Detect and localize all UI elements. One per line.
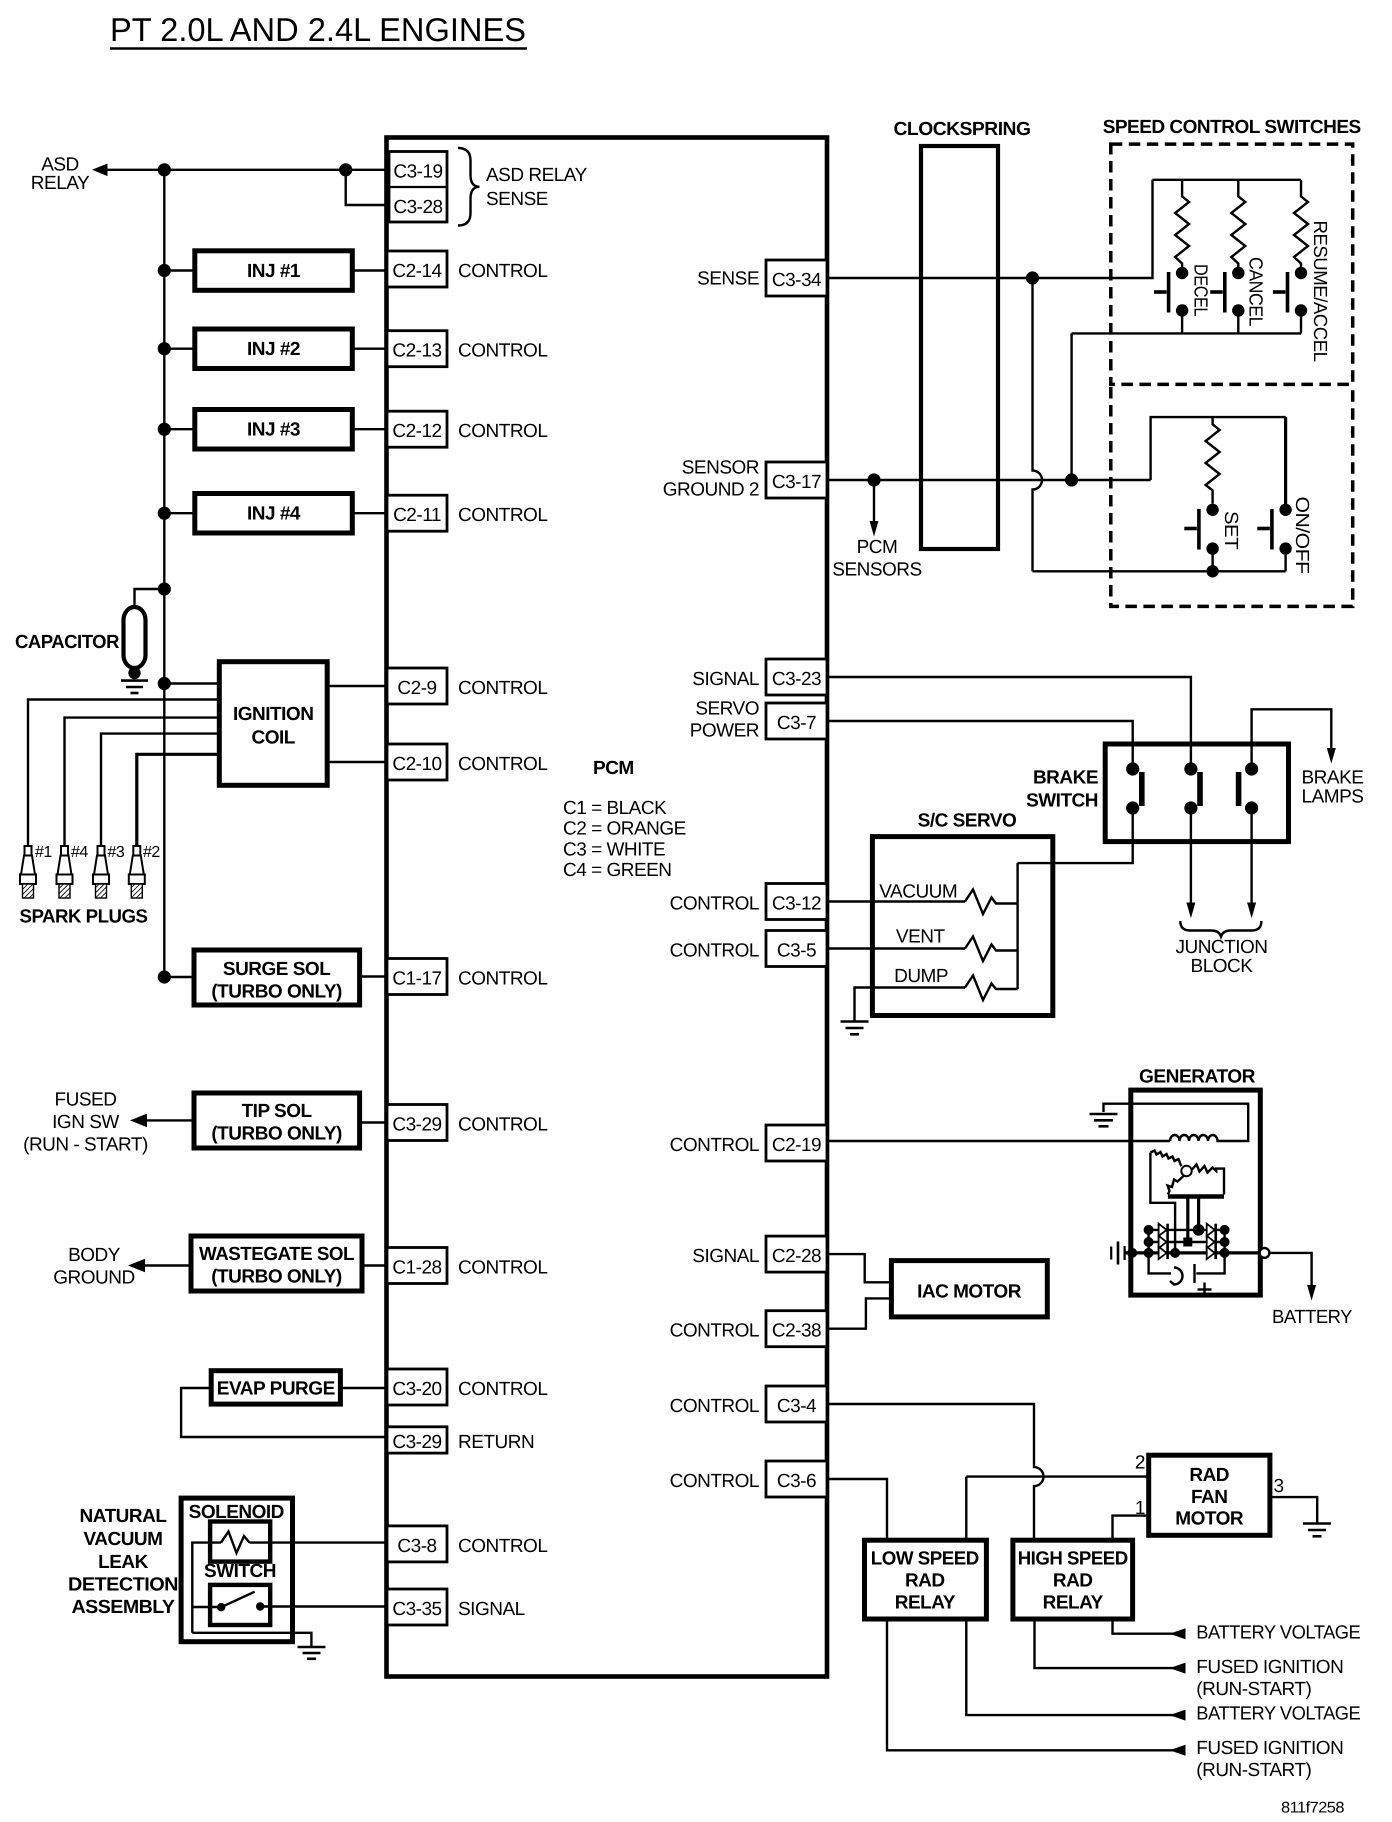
svg-text:LEAK: LEAK bbox=[98, 1552, 149, 1573]
svg-text:CONTROL: CONTROL bbox=[458, 754, 547, 775]
svg-text:#4: #4 bbox=[71, 844, 88, 861]
svg-text:MOTOR: MOTOR bbox=[1175, 1509, 1244, 1530]
svg-text:SPARK PLUGS: SPARK PLUGS bbox=[20, 907, 148, 928]
svg-text:FUSED IGNITION: FUSED IGNITION bbox=[1196, 1738, 1343, 1759]
svg-text:RAD: RAD bbox=[905, 1571, 945, 1592]
svg-text:RESUME/ACCEL: RESUME/ACCEL bbox=[1309, 221, 1330, 362]
generator output terminal bbox=[1260, 1248, 1270, 1258]
wire ignition coil to C2-9 bbox=[327, 685, 387, 687]
wire C2-38 to IAC motor bbox=[827, 1298, 891, 1328]
junction dot bus INJ1 bbox=[158, 264, 171, 277]
svg-text:811f7258: 811f7258 bbox=[1281, 1800, 1344, 1817]
svg-text:C3 = WHITE: C3 = WHITE bbox=[563, 840, 665, 861]
svg-text:SENSOR: SENSOR bbox=[682, 457, 759, 478]
svg-text:ON/OFF: ON/OFF bbox=[1291, 497, 1312, 574]
svg-text:CONTROL: CONTROL bbox=[458, 1115, 547, 1136]
svg-text:SERVO: SERVO bbox=[695, 698, 759, 719]
generator box bbox=[1131, 1090, 1261, 1295]
rad fan motor box bbox=[1149, 1455, 1270, 1535]
PCM box bbox=[387, 138, 828, 1677]
pin box C2-28 bbox=[766, 1236, 827, 1272]
arrowhead brake lamps bbox=[1327, 748, 1336, 764]
svg-text:#2: #2 bbox=[143, 844, 160, 861]
svg-text:IGNITION: IGNITION bbox=[233, 704, 313, 725]
svg-text:COIL: COIL bbox=[252, 728, 296, 749]
wire low relay top leg bbox=[965, 1477, 967, 1541]
generator brush circle bbox=[1181, 1166, 1191, 1176]
wire rad fan pin 1 to high relay bbox=[1113, 1516, 1149, 1541]
generator diode D2 bbox=[1159, 1236, 1168, 1248]
pin box C3-8 bbox=[387, 1526, 447, 1562]
junction dot bus INJ4 bbox=[158, 507, 171, 520]
wire wastegate solenoid to body ground bbox=[144, 1264, 191, 1266]
arrowhead fused ignition 1 bbox=[1170, 1663, 1186, 1674]
svg-text:C3-17: C3-17 bbox=[772, 472, 821, 493]
junction dot generator case bbox=[1127, 1248, 1137, 1258]
wire tip solenoid to C3-29 bbox=[360, 1121, 387, 1123]
wire CANCEL bottom stub bbox=[1237, 311, 1239, 334]
wire INJ #3 to C2-12 bbox=[352, 428, 387, 430]
injector INJ #3 box bbox=[195, 410, 352, 450]
wire speed control lower bus bbox=[1072, 332, 1301, 334]
tip solenoid box bbox=[194, 1093, 360, 1148]
pin box C2-11 bbox=[387, 495, 447, 531]
wire evap purge to C3-20 bbox=[340, 1387, 387, 1389]
dump solenoid zigzag bbox=[965, 976, 1018, 1001]
svg-text:C3-29: C3-29 bbox=[392, 1115, 441, 1136]
svg-text:C2-38: C2-38 bbox=[772, 1321, 821, 1342]
pin box C3-29 bbox=[387, 1105, 447, 1141]
wire to C3-28 bbox=[346, 170, 389, 205]
wire high relay to battery voltage bbox=[1113, 1619, 1184, 1634]
wire C2-19 to generator field bbox=[827, 1140, 1170, 1142]
ground NVLD bbox=[298, 1647, 326, 1659]
wire high relay to fused ignition bbox=[1035, 1619, 1184, 1668]
wire low relay to battery voltage bbox=[966, 1619, 1183, 1715]
svg-text:PCM: PCM bbox=[593, 758, 634, 779]
svg-text:C1-17: C1-17 bbox=[392, 969, 441, 990]
svg-text:FUSED: FUSED bbox=[55, 1089, 117, 1110]
svg-text:PT 2.0L AND 2.4L ENGINES: PT 2.0L AND 2.4L ENGINES bbox=[110, 11, 526, 48]
pin box C2-38 bbox=[766, 1311, 827, 1347]
wire SET bottom stub bbox=[1211, 549, 1213, 572]
wire brake pole2 to junction block bbox=[1190, 808, 1192, 903]
svg-text:C2-11: C2-11 bbox=[393, 505, 441, 526]
svg-text:EVAP PURGE: EVAP PURGE bbox=[217, 1379, 335, 1400]
arrowhead junction block left bbox=[1186, 903, 1195, 919]
svg-text:CONTROL: CONTROL bbox=[670, 1135, 759, 1156]
svg-text:CONTROL: CONTROL bbox=[670, 941, 759, 962]
svg-text:WASTEGATE SOL: WASTEGATE SOL bbox=[199, 1244, 355, 1265]
wire ON/OFF bottom stub bbox=[1284, 549, 1286, 572]
junction dot bus capacitor bbox=[158, 582, 171, 595]
wire C3-4 to high speed relay with hop bbox=[827, 1404, 1044, 1540]
svg-text:SOLENOID: SOLENOID bbox=[189, 1502, 284, 1523]
wire INJ #2 to C2-13 bbox=[352, 348, 387, 350]
svg-text:C2 = ORANGE: C2 = ORANGE bbox=[563, 819, 686, 840]
pin box C3-4 bbox=[766, 1386, 827, 1422]
svg-text:JUNCTION: JUNCTION bbox=[1175, 937, 1267, 958]
wire coil to spark plug 4 bbox=[65, 718, 220, 846]
low speed rad relay box bbox=[865, 1540, 987, 1619]
generator rotor winding right bbox=[1192, 1165, 1224, 1195]
pin box C1-28 bbox=[387, 1248, 447, 1284]
ground rad fan bbox=[1303, 1524, 1331, 1537]
svg-text:C1 = BLACK: C1 = BLACK bbox=[563, 798, 667, 819]
generator diode D1 bbox=[1159, 1224, 1168, 1236]
S/C servo box bbox=[872, 837, 1052, 1016]
wire rad fan pin 2 feed bbox=[966, 1475, 1148, 1477]
svg-text:POWER: POWER bbox=[690, 721, 759, 742]
junction dots generator left bus bbox=[1144, 1225, 1154, 1235]
pin box C2-19 bbox=[766, 1125, 827, 1161]
generator rotor winding upper bbox=[1150, 1151, 1181, 1167]
svg-text:CANCEL: CANCEL bbox=[1245, 257, 1266, 326]
generator regulator leg to row1 bbox=[1197, 1197, 1200, 1230]
wire low relay to fused ignition bbox=[887, 1619, 1183, 1750]
svg-text:C3-8: C3-8 bbox=[397, 1536, 436, 1557]
svg-text:C3-19: C3-19 bbox=[393, 162, 442, 183]
spark plug 4 bbox=[57, 846, 73, 898]
svg-text:RAD: RAD bbox=[1189, 1465, 1229, 1486]
wire ASD relay feed bbox=[104, 169, 389, 171]
svg-text:RAD: RAD bbox=[1053, 1571, 1093, 1592]
generator regulator leg to row2 bbox=[1186, 1197, 1189, 1243]
generator right diode bus bbox=[1196, 1230, 1224, 1274]
svg-text:IAC MOTOR: IAC MOTOR bbox=[917, 1282, 1022, 1303]
svg-text:C2-10: C2-10 bbox=[392, 754, 441, 775]
evap purge solenoid box bbox=[211, 1371, 340, 1404]
wire bus to ignition coil B+ bbox=[164, 682, 219, 684]
wire generator to battery bbox=[1269, 1253, 1311, 1286]
svg-text:VENT: VENT bbox=[896, 926, 946, 947]
svg-text:CONTROL: CONTROL bbox=[458, 341, 547, 362]
svg-text:RETURN: RETURN bbox=[458, 1432, 534, 1453]
pin box C1-17 bbox=[387, 959, 447, 995]
spark plug 1 bbox=[20, 846, 36, 898]
svg-text:CONTROL: CONTROL bbox=[458, 678, 547, 699]
svg-text:SIGNAL: SIGNAL bbox=[692, 1246, 759, 1267]
svg-text:BATTERY VOLTAGE: BATTERY VOLTAGE bbox=[1196, 1623, 1360, 1644]
pin box C3-35 bbox=[387, 1589, 447, 1625]
svg-text:CONTROL: CONTROL bbox=[458, 505, 547, 526]
svg-text:INJ #2: INJ #2 bbox=[247, 339, 300, 360]
generator diode row 3 output bbox=[1125, 1251, 1260, 1254]
wire dump to ground bbox=[855, 988, 966, 1022]
NVLD switch box bbox=[210, 1585, 270, 1625]
switch CANCEL bbox=[1210, 267, 1244, 317]
svg-text:ASSEMBLY: ASSEMBLY bbox=[72, 1597, 176, 1618]
svg-text:C3-6: C3-6 bbox=[777, 1471, 816, 1492]
generator diode D5 bbox=[1207, 1236, 1216, 1248]
NVLD assembly outer box bbox=[181, 1498, 292, 1642]
generator diode row 1 bbox=[1149, 1229, 1225, 1231]
svg-text:SWITCH: SWITCH bbox=[1026, 791, 1098, 812]
wire C3-7 servo power to brake switch pole 1 bbox=[827, 721, 1133, 769]
svg-text:C2-12: C2-12 bbox=[392, 421, 441, 442]
brace ASD relay sense bbox=[458, 148, 480, 226]
generator rotation arrow bbox=[1170, 1268, 1183, 1285]
junction dot generator center row1 bbox=[1193, 1224, 1205, 1236]
svg-text:BATTERY VOLTAGE: BATTERY VOLTAGE bbox=[1196, 1704, 1360, 1725]
svg-text:#1: #1 bbox=[35, 844, 52, 861]
svg-text:(RUN - START): (RUN - START) bbox=[23, 1135, 148, 1156]
svg-text:CAPACITOR: CAPACITOR bbox=[15, 632, 120, 653]
junction dot bus INJ3 bbox=[158, 423, 171, 436]
wire bus to surge solenoid bbox=[164, 976, 194, 978]
wire servo internal bus bbox=[1016, 863, 1018, 989]
pin box C2-13 bbox=[387, 331, 447, 367]
capacitor ground stem bbox=[133, 668, 135, 678]
pin box C2-12 bbox=[387, 411, 447, 447]
svg-text:SET: SET bbox=[1220, 511, 1241, 550]
wire ignition coil to C2-10 bbox=[327, 761, 387, 763]
generator left diode bus bbox=[1147, 1230, 1149, 1253]
generator left loop bottom bbox=[1149, 1253, 1171, 1274]
svg-text:C3-29: C3-29 bbox=[392, 1432, 441, 1453]
wire set/onoff return with hop bbox=[1033, 278, 1043, 571]
generator diode D3 bbox=[1159, 1247, 1168, 1259]
junction dot bus INJ2 bbox=[158, 342, 171, 355]
speed control switches dashed box upper bbox=[1111, 144, 1353, 384]
svg-text:GENERATOR: GENERATOR bbox=[1139, 1067, 1256, 1088]
svg-text:TIP SOL: TIP SOL bbox=[242, 1101, 313, 1122]
svg-text:SENSE: SENSE bbox=[486, 189, 548, 210]
svg-text:CONTROL: CONTROL bbox=[458, 261, 547, 282]
svg-text:VACUUM: VACUUM bbox=[879, 882, 957, 903]
junction dot capacitor ground bbox=[128, 667, 140, 679]
svg-text:(RUN-START): (RUN-START) bbox=[1196, 1679, 1311, 1700]
svg-text:BRAKE: BRAKE bbox=[1033, 768, 1098, 789]
svg-text:ASD RELAY: ASD RELAY bbox=[486, 165, 588, 186]
wire rad fan pin 3 to ground bbox=[1270, 1497, 1317, 1523]
speed control switches dashed box lower bbox=[1111, 387, 1353, 606]
IAC motor box bbox=[891, 1261, 1047, 1317]
switch ON/OFF bbox=[1257, 504, 1292, 555]
svg-text:C1-28: C1-28 bbox=[392, 1258, 441, 1279]
wire coil to spark plug 2 bbox=[137, 754, 220, 846]
wire C3-17 sensor ground 2 bbox=[827, 479, 1151, 481]
injector INJ #4 box bbox=[195, 494, 352, 534]
ground servo dump bbox=[841, 1022, 869, 1035]
svg-text:CONTROL: CONTROL bbox=[458, 421, 547, 442]
wire RESUME bottom stub bbox=[1300, 311, 1302, 334]
svg-text:C2-19: C2-19 bbox=[772, 1135, 821, 1156]
wire tip solenoid to fused ign sw bbox=[146, 1119, 194, 1121]
svg-text:RELAY: RELAY bbox=[1043, 1593, 1104, 1614]
svg-text:PCM: PCM bbox=[857, 537, 898, 558]
generator battery plus tick bbox=[1193, 1264, 1195, 1283]
wire DECEL bottom stub bbox=[1181, 311, 1183, 334]
arrowhead battery bbox=[1307, 1285, 1316, 1301]
svg-text:C3-7: C3-7 bbox=[777, 713, 816, 734]
wire C3-34 sense bbox=[827, 180, 1153, 278]
pin box C3-19 C3-28 stack bbox=[389, 152, 447, 223]
injector INJ #1 box bbox=[195, 251, 352, 290]
brake switch pole 2 bbox=[1184, 762, 1200, 814]
generator stator coil bbox=[1104, 1104, 1249, 1141]
brake switch pole 3 bbox=[1239, 762, 1259, 814]
generator case ground marks bbox=[1111, 1242, 1124, 1265]
injector INJ #2 box bbox=[195, 329, 352, 369]
wire C3-23 signal to brake switch pole 2 bbox=[827, 677, 1191, 769]
arrowhead to fused ign sw bbox=[130, 1114, 147, 1128]
brake switch box bbox=[1105, 744, 1288, 842]
pin box C3-6 bbox=[766, 1461, 827, 1497]
junction dot ASD sense branch bbox=[339, 163, 352, 176]
wastegate solenoid box bbox=[191, 1236, 362, 1291]
wire bus to capacitor bbox=[135, 589, 165, 608]
svg-text:C3-35: C3-35 bbox=[392, 1599, 441, 1620]
wire bus to INJ #1 bbox=[164, 269, 195, 271]
svg-text:SENSORS: SENSORS bbox=[832, 560, 921, 581]
arrowhead to ASD relay bbox=[92, 164, 108, 177]
wire bus to INJ #2 bbox=[164, 348, 195, 350]
wire ON/OFF top leg bbox=[1284, 417, 1287, 510]
svg-text:VACUUM: VACUUM bbox=[84, 1529, 163, 1550]
pin box C3-34 bbox=[766, 260, 827, 296]
wire brake pole1 to servo bbox=[1018, 808, 1133, 863]
junction dot sense wire bbox=[1026, 271, 1039, 284]
svg-text:DUMP: DUMP bbox=[894, 966, 948, 987]
NVLD solenoid winding zigzag bbox=[221, 1532, 250, 1554]
svg-text:SIGNAL: SIGNAL bbox=[692, 669, 759, 690]
svg-text:C3-4: C3-4 bbox=[777, 1396, 817, 1417]
svg-text:SIGNAL: SIGNAL bbox=[458, 1599, 525, 1620]
arrowhead battery voltage 2 bbox=[1170, 1710, 1186, 1721]
svg-text:LOW SPEED: LOW SPEED bbox=[871, 1549, 979, 1570]
svg-text:BRAKE: BRAKE bbox=[1302, 768, 1364, 789]
svg-text:C2-9: C2-9 bbox=[397, 678, 436, 699]
svg-text:(TURBO ONLY): (TURBO ONLY) bbox=[211, 982, 342, 1003]
svg-text:SURGE SOL: SURGE SOL bbox=[223, 959, 331, 980]
svg-text:C3-23: C3-23 bbox=[772, 669, 821, 690]
svg-text:(RUN-START): (RUN-START) bbox=[1196, 1760, 1311, 1781]
svg-text:C2-28: C2-28 bbox=[772, 1246, 821, 1267]
svg-text:(TURBO ONLY): (TURBO ONLY) bbox=[211, 1124, 342, 1145]
svg-text:RELAY: RELAY bbox=[895, 1593, 956, 1614]
resistor RESUME/ACCEL branch bbox=[1294, 180, 1308, 273]
NVLD solenoid box bbox=[210, 1522, 270, 1562]
wire coil to spark plug 3 bbox=[101, 734, 219, 846]
generator regulator bar bbox=[1168, 1194, 1224, 1198]
resistor SET bbox=[1206, 417, 1220, 504]
svg-text:CONTROL: CONTROL bbox=[670, 1471, 759, 1492]
svg-text:SPEED CONTROL SWITCHES: SPEED CONTROL SWITCHES bbox=[1103, 117, 1361, 138]
wire evap purge return to C3-29 bbox=[181, 1388, 387, 1437]
generator diode D6 bbox=[1207, 1247, 1216, 1259]
pin box C3-29 return bbox=[387, 1427, 447, 1453]
svg-text:2: 2 bbox=[1135, 1453, 1145, 1474]
svg-text:C3-28: C3-28 bbox=[393, 197, 442, 218]
wire bus to INJ #4 bbox=[164, 512, 195, 514]
wire left supply bus bbox=[163, 170, 165, 977]
svg-text:CONTROL: CONTROL bbox=[458, 1536, 547, 1557]
arrowhead PCM sensors bbox=[870, 521, 879, 537]
NVLD switch contact right bbox=[256, 1602, 264, 1610]
junction dot generator row3 bbox=[1170, 1248, 1180, 1258]
pin box C3-20 bbox=[387, 1369, 447, 1405]
surge solenoid box bbox=[194, 950, 360, 1005]
wire NVLD to ground bbox=[192, 1633, 311, 1647]
svg-text:C3-5: C3-5 bbox=[777, 941, 816, 962]
svg-text:GROUND: GROUND bbox=[53, 1268, 134, 1289]
svg-text:C2-14: C2-14 bbox=[392, 261, 442, 282]
svg-text:BODY: BODY bbox=[68, 1245, 121, 1266]
switch SET bbox=[1184, 504, 1219, 555]
wire C2-28 to IAC motor bbox=[827, 1254, 891, 1282]
wire NVLD solenoid to C3-8 bbox=[250, 1541, 388, 1543]
svg-text:BLOCK: BLOCK bbox=[1191, 956, 1254, 977]
svg-text:(TURBO ONLY): (TURBO ONLY) bbox=[211, 1266, 342, 1287]
junction dot sensor ground wire bbox=[1065, 473, 1078, 486]
svg-text:HIGH SPEED: HIGH SPEED bbox=[1018, 1549, 1128, 1570]
high speed rad relay box bbox=[1013, 1540, 1133, 1619]
capacitor C1 body bbox=[124, 607, 146, 668]
resistor DECEL branch bbox=[1175, 180, 1189, 273]
svg-text:C2-13: C2-13 bbox=[392, 341, 441, 362]
wire PCM sensors arrow bbox=[873, 480, 875, 522]
wire INJ #1 to C2-14 bbox=[352, 269, 387, 271]
svg-text:CONTROL: CONTROL bbox=[458, 1258, 547, 1279]
pin box C3-5 bbox=[766, 931, 827, 967]
svg-text:DECEL: DECEL bbox=[1190, 264, 1211, 316]
brace junction block bbox=[1180, 921, 1261, 937]
wire C3-12 to vacuum bbox=[827, 900, 965, 902]
svg-text:SENSE: SENSE bbox=[697, 269, 759, 290]
generator diode row 2 bbox=[1149, 1241, 1225, 1243]
pin box C2-14 bbox=[387, 251, 447, 287]
svg-text:INJ #4: INJ #4 bbox=[247, 504, 301, 525]
clockspring box bbox=[921, 146, 998, 549]
svg-text:3: 3 bbox=[1274, 1476, 1284, 1497]
svg-text:#3: #3 bbox=[108, 844, 125, 861]
svg-text:SWITCH: SWITCH bbox=[204, 1561, 276, 1582]
wire wastegate solenoid to C1-28 bbox=[362, 1264, 387, 1266]
svg-text:S/C SERVO: S/C SERVO bbox=[918, 811, 1017, 832]
junction dots generator right bus bbox=[1220, 1225, 1230, 1235]
svg-text:FAN: FAN bbox=[1191, 1487, 1228, 1508]
pin box C2-10 bbox=[387, 744, 447, 780]
wire brake pole3 to junction block bbox=[1250, 808, 1252, 903]
svg-text:INJ #3: INJ #3 bbox=[247, 420, 300, 441]
arrowhead junction block right bbox=[1247, 903, 1256, 919]
svg-text:IGN SW: IGN SW bbox=[52, 1112, 119, 1133]
svg-text:NATURAL: NATURAL bbox=[80, 1506, 168, 1527]
pin box C3-7 bbox=[766, 703, 827, 739]
junction dot ASD bus top bbox=[158, 163, 171, 176]
wire C3-5 to vent bbox=[827, 947, 965, 949]
wire brake pole3 to brake lamps bbox=[1252, 709, 1332, 769]
svg-text:CLOCKSPRING: CLOCKSPRING bbox=[894, 119, 1031, 140]
wire NVLD solenoid left leg bbox=[192, 1543, 221, 1633]
svg-text:C4 = GREEN: C4 = GREEN bbox=[563, 860, 672, 881]
pin box C3-17 bbox=[766, 462, 827, 498]
junction dot bus coil feed bbox=[158, 677, 171, 690]
spark plug 2 bbox=[129, 846, 145, 898]
vacuum solenoid zigzag bbox=[965, 890, 1018, 915]
svg-text:C3-34: C3-34 bbox=[772, 270, 822, 291]
wire speed control top bus bbox=[1153, 179, 1302, 181]
wire bus to INJ #3 bbox=[164, 428, 195, 430]
junction dot bus surge bbox=[158, 970, 171, 983]
svg-text:FUSED IGNITION: FUSED IGNITION bbox=[1196, 1657, 1343, 1678]
svg-text:CONTROL: CONTROL bbox=[670, 1321, 759, 1342]
brake switch pole 1 bbox=[1126, 762, 1142, 814]
generator rotor loop left bbox=[1150, 1153, 1175, 1253]
svg-text:CONTROL: CONTROL bbox=[458, 1379, 547, 1400]
wire INJ #4 to C2-11 bbox=[352, 512, 387, 514]
